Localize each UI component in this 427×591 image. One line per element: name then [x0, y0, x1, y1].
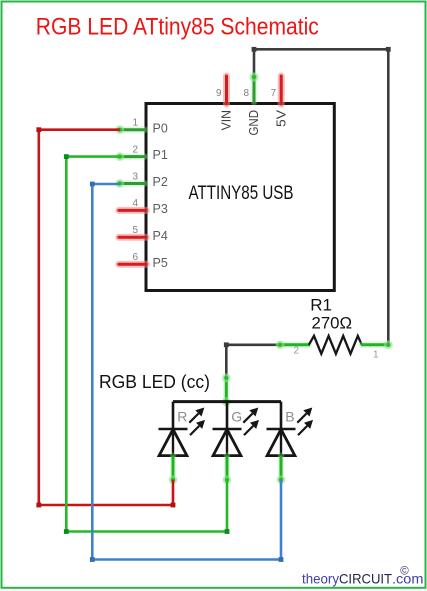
pin 9 VIN stub (unconnected) [223, 76, 230, 104]
pin 4 P3 stub (unconnected) [119, 207, 147, 214]
junction blue top-left [90, 182, 95, 187]
svg-text:1: 1 [132, 118, 138, 129]
svg-text:CIRCUIT: CIRCUIT [339, 571, 392, 587]
svg-text:theory: theory [302, 571, 339, 587]
wire blue net segment to pin 3 [92, 183, 119, 186]
wire resistor-to-LED segment vertical [225, 344, 228, 378]
svg-text:P3: P3 [153, 202, 168, 216]
svg-text:RGB LED ATtiny85 Schematic: RGB LED ATtiny85 Schematic [36, 14, 319, 41]
junction green top-left [64, 154, 69, 159]
wire green net segment LED G lead down [226, 480, 229, 532]
wire GND net segment pin8 up [253, 49, 256, 76]
junction green at LED G corner [225, 529, 230, 534]
svg-text:7: 7 [271, 88, 277, 99]
junction red at LED R corner [171, 503, 176, 508]
LED G arrows [243, 408, 259, 436]
wire red net segment LED R lead down [172, 480, 175, 505]
svg-text:4: 4 [132, 198, 138, 209]
pin 5 P4 stub (unconnected) [119, 234, 147, 241]
wire blue net segment left vertical [91, 183, 94, 561]
resistor R1 zigzag body [309, 336, 362, 354]
svg-text:R: R [177, 409, 187, 425]
svg-text:R1: R1 [310, 296, 332, 315]
pin 7 5V stub (unconnected) [278, 76, 285, 104]
wire green net segment bottom horizontal [65, 530, 228, 533]
op IC U1 ATTINY85 body [146, 104, 334, 291]
svg-text:6: 6 [132, 252, 138, 263]
resistor R1 pin 2 stub [276, 340, 310, 349]
LED B bottom pin stub [277, 456, 286, 485]
wire red net segment bottom horizontal [38, 504, 175, 507]
svg-text:270Ω: 270Ω [312, 314, 353, 333]
LED B channel symbol [267, 402, 296, 456]
svg-text:1: 1 [373, 350, 379, 361]
svg-text:RGB LED (cc): RGB LED (cc) [99, 372, 210, 392]
junction at resistor-wire corner [224, 342, 229, 347]
wire green net segment left vertical [65, 155, 68, 533]
junction top-right corner [386, 47, 391, 52]
svg-text:GND: GND [247, 110, 261, 136]
wire blue net segment LED B lead down [280, 480, 283, 560]
svg-text:P2: P2 [153, 175, 168, 189]
wire red net segment left vertical [37, 128, 40, 506]
svg-text:B: B [285, 409, 294, 425]
LED D1 top pin (green) from wire to rail [222, 373, 231, 406]
svg-text:ATTINY85 USB: ATTINY85 USB [189, 182, 294, 204]
LED common rail wire [173, 400, 281, 403]
junction green bottom-left [64, 529, 69, 534]
svg-text:2: 2 [132, 144, 138, 155]
pin 8 GND stub [249, 72, 258, 103]
svg-text:9: 9 [216, 88, 222, 99]
wire green net segment to pin 2 [66, 155, 119, 158]
LED R channel symbol [159, 402, 188, 456]
svg-text:5: 5 [132, 225, 138, 236]
wire red net segment to pin 1 [39, 128, 120, 131]
svg-text:5V: 5V [274, 109, 288, 127]
LED R bottom pin stub [169, 456, 178, 485]
wire resistor-to-LED segment horizontal [226, 343, 280, 346]
LED G channel symbol [213, 402, 242, 456]
junction blue bottom-left [90, 557, 95, 562]
svg-text:P5: P5 [153, 256, 168, 270]
junction red top-left [36, 127, 41, 132]
svg-text:VIN: VIN [220, 110, 234, 130]
svg-text:G: G [231, 409, 242, 425]
wire blue net segment bottom horizontal [91, 558, 282, 561]
junction red bottom-left [36, 503, 41, 508]
svg-text:8: 8 [243, 88, 249, 99]
pin 6 P5 stub (unconnected) [119, 261, 147, 268]
wire GND net segment across top [253, 48, 390, 51]
svg-text:P1: P1 [153, 148, 168, 162]
pin 3 P2 stub [115, 179, 146, 188]
junction blue at LED B corner [279, 557, 284, 562]
pin 1 P0 stub [115, 125, 146, 134]
svg-text:P4: P4 [153, 229, 168, 243]
svg-text:.com: .com [392, 571, 424, 587]
svg-text:2: 2 [294, 346, 300, 357]
resistor R1 pin 1 stub [361, 340, 393, 349]
LED R arrows [189, 408, 205, 436]
svg-text:3: 3 [132, 171, 138, 182]
junction top-left corner [252, 47, 257, 52]
svg-text:P0: P0 [153, 121, 168, 135]
LED B arrows [297, 408, 313, 436]
wire GND net segment down right side [387, 49, 390, 345]
LED G bottom pin stub [223, 456, 232, 485]
pin 2 P1 stub [115, 152, 146, 161]
